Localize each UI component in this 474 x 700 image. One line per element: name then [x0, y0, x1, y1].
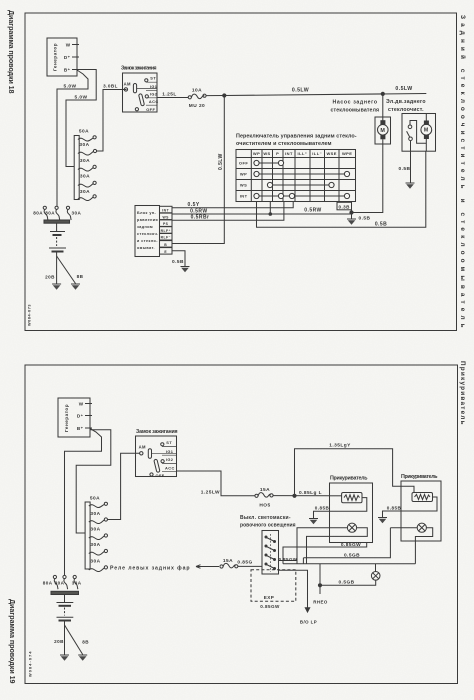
lighter 2 heater element	[412, 493, 433, 502]
svg-text:INT: INT	[240, 194, 248, 199]
lighter 1 ground wire 0.85B	[314, 498, 367, 519]
ignition SW1 terminal IG1	[150, 84, 158, 89]
lighter 1 box	[330, 483, 373, 543]
fuse 30A no2	[78, 142, 97, 155]
lighter 2 box	[401, 481, 441, 541]
ignition SW1 terminal ACC	[149, 99, 159, 104]
lighter 2 label	[401, 474, 438, 480]
svg-text:30A: 30A	[90, 558, 100, 564]
ignition lock SW1	[121, 66, 157, 113]
svg-text:Замок зажигания: Замок зажигания	[121, 66, 157, 72]
connector 0.3B	[337, 202, 352, 213]
code W084-074	[29, 651, 33, 677]
svg-text:Диаграмма проводки 19: Диаграмма проводки 19	[8, 599, 17, 684]
svg-text:OFF: OFF	[156, 473, 165, 478]
fuse 50A	[78, 129, 96, 142]
svg-text:0.85B: 0.85B	[315, 506, 330, 511]
fuse bus bar	[74, 136, 79, 200]
wire battery to ground 8B	[57, 256, 84, 284]
generator G1 terminal B+	[64, 68, 79, 73]
fuse 30A bottom no2	[89, 511, 108, 524]
svg-text:Выкл. светомаски-: Выкл. светомаски-	[240, 515, 291, 521]
wire lamp2 right return	[415, 528, 432, 564]
svg-text:0.85GW: 0.85GW	[341, 542, 361, 548]
wire pump feed	[382, 94, 384, 117]
wire 3.0BL fuse to ignition AM	[97, 84, 127, 152]
ignition SW1 lever capsules	[133, 84, 157, 107]
code W084-073	[28, 304, 32, 326]
wire ACC to lighter fuse	[177, 471, 255, 496]
wire 0.5RW WS	[172, 202, 352, 216]
svg-text:3.0BL: 3.0BL	[103, 84, 118, 89]
wire 0.5B wiper motor return	[257, 151, 426, 227]
svg-text:W: W	[66, 43, 71, 48]
svg-text:Переключатель управления задни: Переключатель управления задним стекло-	[236, 134, 357, 140]
svg-text:30A: 30A	[79, 142, 89, 148]
ground lighter 1	[309, 519, 318, 525]
wire washer pump return	[352, 144, 383, 213]
table header labels	[253, 151, 353, 156]
wire generator to fuse bus bottom	[76, 430, 111, 533]
ignition SW2 terminal IG2	[161, 457, 174, 463]
blackout switch contacts	[265, 536, 276, 570]
lighter 2 ground wire 0.85B	[383, 497, 438, 518]
battery fuse 80A bottom mid	[55, 575, 68, 589]
wire generator to battery fuse bottom	[65, 429, 102, 576]
svg-text:очистителем и стеклоомывателем: очистителем и стеклоомывателем	[236, 141, 332, 147]
svg-text:PS: PS	[163, 222, 169, 226]
ignition lock SW2	[136, 429, 179, 477]
svg-text:стеклоочист.: стеклоочист.	[388, 107, 424, 113]
rear wiper motor M2 box	[402, 114, 436, 152]
svg-text:INT: INT	[285, 151, 293, 156]
blackout switch dashed spine	[270, 534, 272, 572]
svg-text:0.85GW: 0.85GW	[279, 557, 298, 562]
ignition SW1 terminal cells	[146, 82, 157, 105]
svg-text:IG1: IG1	[150, 84, 158, 89]
wire 0.85G to blackout switch	[237, 559, 262, 566]
junction lighter feed	[293, 494, 296, 497]
svg-text:8B: 8B	[82, 640, 89, 645]
svg-text:30A: 30A	[80, 158, 90, 164]
wire motor switch to ground 0.5B	[399, 151, 411, 183]
rear wiper motor label	[386, 99, 426, 113]
fuse bus bar bottom	[85, 502, 90, 569]
svg-text:IG1: IG1	[166, 449, 174, 454]
svg-text:30A: 30A	[90, 527, 100, 533]
svg-text:Блок уп-: Блок уп-	[137, 211, 156, 215]
svg-text:WP: WP	[240, 172, 247, 177]
battery BAT2	[57, 595, 74, 621]
svg-text:OFF: OFF	[239, 161, 248, 166]
svg-text:Прикуриватель: Прикуриватель	[330, 476, 368, 482]
svg-text:AM: AM	[139, 444, 146, 449]
svg-text:80A: 80A	[33, 211, 43, 216]
svg-text:0.5B: 0.5B	[172, 259, 184, 265]
wire lamp1 right return	[307, 528, 368, 564]
ignition SW1 terminal OFF	[135, 107, 155, 112]
generator G1 box	[47, 38, 77, 76]
switch table title	[236, 134, 357, 148]
svg-text:P: P	[276, 151, 279, 156]
wiper motor M2 motor	[421, 114, 432, 152]
svg-text:M: M	[424, 128, 429, 134]
fuse 30A no4	[78, 174, 96, 188]
caption left: Диаграмма проводки 19	[8, 599, 17, 684]
caption left: Диаграмма проводки 18	[7, 10, 16, 94]
ignition SW2 terminal ST	[161, 440, 173, 446]
lighter 1 heater element	[330, 493, 363, 503]
svg-text:0.5RBr: 0.5RBr	[191, 215, 210, 221]
svg-text:30A: 30A	[72, 211, 82, 216]
ignition SW1 terminal ST	[145, 76, 157, 82]
svg-text:0.3B: 0.3B	[338, 204, 350, 209]
svg-text:0.5GB: 0.5GB	[338, 579, 354, 585]
battery bus bar bottom	[51, 591, 79, 594]
control unit box	[135, 206, 160, 257]
lighter 1 label	[330, 476, 368, 482]
ground battery 8B	[71, 284, 80, 290]
wire top 0.5LW run	[206, 86, 426, 96]
ignition SW2 terminal cells	[162, 447, 177, 472]
ground wiper switch	[406, 183, 415, 189]
wire 5.0W generator to fuse bus	[66, 70, 96, 167]
blackout switch box	[262, 531, 279, 575]
svg-text:AM: AM	[124, 81, 131, 86]
ignition SW1 terminal IG2	[145, 91, 158, 98]
svg-text:D⁺: D⁺	[77, 414, 84, 419]
battery fuse 80A bottom left	[43, 575, 58, 589]
svg-text:0.5B: 0.5B	[399, 166, 411, 172]
svg-text:B/O LP: B/O LP	[300, 620, 317, 625]
battery BAT1	[49, 224, 66, 252]
svg-text:20B: 20B	[54, 639, 64, 644]
svg-text:0.5LW: 0.5LW	[395, 86, 412, 92]
wire 0.5RBr PS	[172, 202, 284, 221]
svg-text:омыват.: омыват.	[137, 246, 155, 250]
svg-text:Эл.дв.заднего: Эл.дв.заднего	[386, 99, 426, 105]
svg-text:IG2: IG2	[150, 91, 158, 96]
wire 0.85GW lower a	[283, 542, 367, 564]
svg-text:WS: WS	[163, 215, 170, 219]
svg-text:0.85GW: 0.85GW	[260, 604, 280, 609]
control unit pin RLF+	[160, 227, 173, 234]
lighter 1 lamp	[347, 523, 356, 532]
ignition SW2 lever capsules	[148, 449, 176, 473]
fuse 30A bottom no3	[89, 527, 108, 540]
wire battery to ground 8B bottom	[65, 625, 90, 655]
battery bus bar	[44, 220, 70, 223]
generator G2 box	[58, 398, 90, 437]
washer pump M1	[375, 117, 391, 144]
svg-text:Замок зажигания: Замок зажигания	[136, 429, 178, 435]
wire 1.25L ignition to fuse	[157, 92, 188, 98]
svg-text:задним: задним	[137, 225, 153, 229]
svg-text:0.85G: 0.85G	[237, 559, 252, 565]
svg-text:EXP: EXP	[264, 595, 275, 600]
svg-text:ровочного освещения: ровочного освещения	[240, 523, 296, 529]
control unit pin E	[160, 248, 173, 255]
junction washer pump branch	[381, 92, 384, 95]
svg-text:0.5Y: 0.5Y	[188, 202, 200, 208]
svg-text:W: W	[79, 402, 84, 407]
fuse 30A bottom no5	[89, 558, 108, 571]
ground battery 20B	[52, 284, 61, 290]
ignition SW1 terminal AM	[124, 81, 131, 91]
svg-text:OFF: OFF	[146, 107, 155, 112]
svg-text:80A: 80A	[43, 580, 53, 585]
svg-text:W084-073: W084-073	[28, 304, 32, 326]
svg-text:30A: 30A	[80, 189, 90, 195]
svg-text:0.5B: 0.5B	[359, 216, 371, 222]
svg-text:80A: 80A	[55, 580, 65, 585]
wire 0.85GW switch output	[279, 557, 298, 562]
svg-text:WSE: WSE	[326, 151, 336, 156]
svg-text:стеклооч.: стеклооч.	[137, 232, 159, 236]
svg-text:B⁺: B⁺	[64, 68, 71, 73]
wire 1.35LgY to lighter 2	[295, 442, 415, 496]
svg-text:0.5GB: 0.5GB	[344, 552, 360, 558]
svg-text:80A: 80A	[45, 211, 55, 216]
svg-text:10A: 10A	[192, 87, 202, 93]
svg-text:30A: 30A	[90, 511, 100, 517]
svg-text:Генератор: Генератор	[64, 404, 69, 432]
svg-text:M: M	[380, 128, 385, 134]
svg-text:E: E	[164, 250, 167, 254]
ground battery 20B bottom	[60, 655, 69, 661]
frame bottom diagram	[25, 365, 458, 684]
svg-text:WS: WS	[263, 151, 270, 156]
lighter 2 lamp	[417, 523, 426, 532]
svg-text:Насос заднего: Насос заднего	[333, 100, 378, 106]
control unit pin RLF-	[160, 234, 173, 241]
svg-text:0.85B: 0.85B	[387, 505, 402, 510]
frame top diagram	[25, 13, 457, 331]
svg-text:30A: 30A	[90, 542, 100, 548]
wire 0.5Y INT	[172, 202, 293, 209]
wire to B/O LP	[279, 570, 318, 624]
svg-text:0.5RW: 0.5RW	[190, 208, 207, 214]
ignition SW2 terminal OFF	[150, 473, 165, 478]
junction ground node	[350, 211, 371, 222]
svg-text:1.35LgY: 1.35LgY	[329, 442, 351, 448]
svg-text:8B: 8B	[77, 274, 84, 279]
ground control unit	[181, 267, 190, 273]
ground washer node	[347, 219, 356, 225]
wire lamp1 left to switch node	[297, 528, 347, 564]
fuse 80A battery left	[33, 206, 48, 220]
junction RHEO	[313, 564, 328, 605]
wiper switch table	[236, 150, 356, 202]
svg-text:1.25LW: 1.25LW	[201, 490, 220, 496]
svg-text:B: B	[164, 243, 167, 247]
table row labels	[239, 161, 248, 199]
svg-text:WPE: WPE	[342, 151, 352, 156]
svg-text:15A: 15A	[260, 487, 270, 493]
svg-text:Генератор: Генератор	[53, 43, 58, 71]
svg-text:20B: 20B	[45, 275, 55, 280]
svg-text:WP: WP	[253, 151, 260, 156]
ground battery 8B bottom	[78, 655, 87, 661]
illumination lamp 0.5GB	[320, 564, 380, 586]
svg-text:30A: 30A	[72, 580, 82, 585]
EXP dashed box	[251, 570, 296, 609]
svg-text:RHEO: RHEO	[313, 600, 328, 605]
fuse 30A no3	[78, 158, 96, 171]
wiper motor M2 internal switch	[407, 121, 427, 152]
fuse 30A no5	[78, 189, 96, 201]
fuse 10A MU20	[188, 87, 206, 109]
relay label and arrow	[110, 565, 219, 572]
wire 5.0W generator to battery fuse	[57, 70, 88, 206]
table row WP contacts	[254, 171, 350, 176]
svg-text:ILL⁺: ILL⁺	[298, 151, 308, 156]
ground lighter 2	[378, 518, 387, 524]
svg-text:HO5: HO5	[259, 503, 270, 509]
svg-text:0.5RW: 0.5RW	[304, 208, 321, 214]
wire 0.85LgL to lighter 1	[273, 490, 329, 496]
fuse 30A bottom no4	[89, 542, 108, 555]
svg-text:30A: 30A	[80, 174, 90, 180]
svg-text:и стекло-: и стекло-	[137, 239, 158, 243]
ignition SW2 terminal ACC	[165, 465, 175, 470]
control unit pin INT	[160, 206, 173, 213]
wire 0.5LW vertical to control unit B	[172, 96, 224, 244]
fuse 50A bottom	[89, 495, 108, 507]
generator G2 terminal D+	[77, 414, 92, 419]
svg-text:0.85Lg L: 0.85Lg L	[299, 490, 322, 496]
wire fuse to ignition AM bottom	[108, 453, 140, 519]
fuse 80A battery mid	[45, 206, 60, 220]
control unit pin B	[160, 241, 173, 248]
svg-text:0.5LW: 0.5LW	[218, 153, 224, 170]
svg-text:50A: 50A	[90, 495, 100, 501]
control unit pin PS	[160, 220, 173, 227]
generator G1 terminal D+	[64, 55, 79, 60]
svg-text:RLF⁻: RLF⁻	[161, 236, 171, 240]
svg-text:5.0W: 5.0W	[75, 95, 88, 101]
svg-text:Прикуриватель: Прикуриватель	[459, 361, 466, 425]
svg-text:равления: равления	[137, 218, 158, 222]
wire E to ground 0.5B	[172, 251, 185, 267]
generator G2 terminal B+	[77, 426, 92, 431]
svg-text:ST: ST	[150, 76, 156, 81]
svg-text:0.5B: 0.5B	[375, 222, 387, 228]
svg-text:INT: INT	[162, 209, 169, 213]
washer pump label	[331, 100, 380, 114]
svg-text:ACC: ACC	[149, 99, 159, 104]
wire bus line c	[283, 558, 415, 564]
table row INT contacts	[254, 193, 350, 198]
blackout switch title	[240, 515, 296, 529]
svg-text:D⁺: D⁺	[64, 55, 71, 60]
control unit pin WS	[160, 213, 173, 220]
svg-text:Реле левых задних фар: Реле левых задних фар	[110, 565, 190, 572]
svg-text:50A: 50A	[79, 129, 89, 135]
generator G2 terminal W	[79, 402, 92, 407]
svg-text:стеклоомывателя: стеклоомывателя	[331, 108, 380, 114]
svg-text:ST: ST	[166, 440, 172, 445]
caption right: Прикуриватель	[459, 361, 466, 425]
svg-text:0.5LW: 0.5LW	[292, 88, 309, 94]
svg-text:15A: 15A	[223, 558, 233, 564]
svg-text:IG2: IG2	[166, 457, 174, 462]
junction after fuse	[223, 94, 226, 97]
wire lamp2 left	[390, 527, 417, 529]
svg-text:B⁺: B⁺	[77, 426, 84, 431]
svg-text:5.0W: 5.0W	[64, 84, 77, 90]
svg-text:ILL⁻: ILL⁻	[312, 151, 322, 156]
fuse 30A battery right	[66, 206, 81, 220]
svg-text:MU 20: MU 20	[189, 103, 205, 109]
wire battery to ground 20B	[45, 252, 56, 285]
svg-text:Диаграмма проводки 18: Диаграмма проводки 18	[7, 10, 16, 94]
battery fuse 30A bottom right	[72, 575, 82, 589]
ignition SW2 terminal AM	[139, 444, 146, 455]
svg-text:ACC: ACC	[165, 465, 175, 470]
table row WS contacts	[267, 182, 334, 187]
svg-text:W084-074: W084-074	[29, 651, 33, 677]
table row OFF contacts	[254, 160, 284, 165]
svg-text:Прикуриватель: Прикуриватель	[401, 474, 438, 480]
fuse 15A HO5	[255, 487, 273, 508]
wire 0.5GB lower b	[303, 528, 390, 559]
fuse 15A relay	[220, 558, 238, 568]
svg-text:RLF⁺: RLF⁺	[161, 229, 171, 233]
ignition SW2 terminal IG1	[166, 449, 174, 454]
caption right: Задний стеклоочиститель и стеклоомыватель	[459, 15, 467, 328]
wire battery to ground 20B bottom	[54, 621, 64, 656]
svg-text:1.25L: 1.25L	[162, 92, 177, 98]
generator G1 terminal W	[66, 43, 79, 48]
svg-text:WS: WS	[240, 183, 247, 188]
